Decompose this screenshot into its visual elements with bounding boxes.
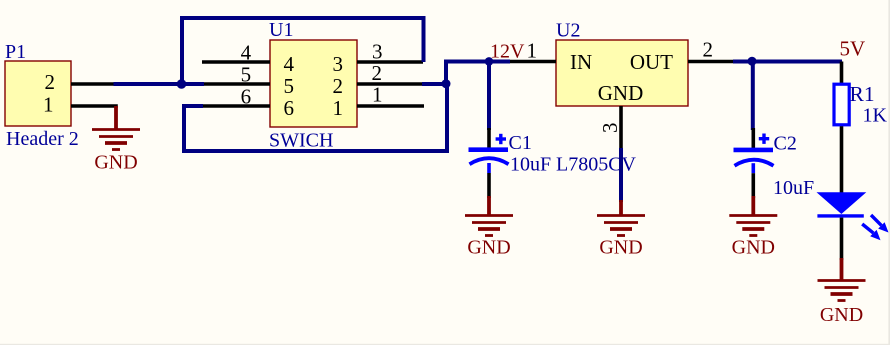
junction C1 tap	[485, 57, 494, 66]
U1 pin 5	[203, 82, 270, 86]
svg-text:12V: 12V	[490, 41, 525, 63]
R1 value 1K	[863, 105, 888, 127]
U1 pin 6 inside name	[284, 96, 295, 120]
capacitor C2	[734, 128, 774, 198]
svg-text:1K: 1K	[863, 105, 888, 127]
U1 pin 2 inside name	[333, 74, 344, 98]
wire LED cathode down	[840, 218, 844, 260]
svg-text:6: 6	[284, 96, 295, 120]
svg-text:4: 4	[284, 52, 295, 76]
switch U1	[270, 40, 357, 127]
svg-text:GND: GND	[467, 237, 510, 259]
svg-text:2: 2	[703, 38, 714, 62]
svg-text:2: 2	[372, 61, 383, 85]
U1 pin 4 inside name	[284, 52, 295, 76]
svg-text:GND: GND	[732, 237, 775, 259]
U1 pin 6	[203, 104, 270, 108]
sheet right edge	[888, 0, 890, 345]
U1 pin 5 number	[241, 63, 252, 87]
LED D1	[817, 192, 889, 240]
wire node C into C2	[751, 62, 755, 131]
U1 designator	[269, 19, 293, 41]
U1 pin 2 number	[372, 61, 383, 85]
svg-text:3: 3	[372, 40, 383, 64]
svg-text:Header 2: Header 2	[6, 128, 79, 150]
U1 pin 6 number	[241, 85, 252, 109]
svg-text:10uF: 10uF	[510, 154, 551, 176]
svg-text:3: 3	[333, 52, 344, 76]
U2 designator	[556, 20, 580, 42]
U1 pin 3	[357, 60, 423, 64]
ground GND at U2	[597, 216, 645, 259]
svg-text:5: 5	[284, 74, 295, 98]
wire node B up to 12V rail	[446, 62, 510, 85]
U2 pin GND name	[598, 81, 644, 105]
P1 pin 2	[71, 82, 115, 86]
junction node A	[177, 79, 187, 89]
wire 12V rail into C1	[487, 62, 491, 131]
svg-text:1: 1	[372, 83, 383, 107]
U2 pin 3 number	[598, 123, 622, 134]
U1 pin 2	[357, 82, 422, 86]
svg-text:GND: GND	[94, 152, 137, 174]
junction node C	[748, 57, 757, 66]
U1 pin 1 inside name	[333, 96, 344, 120]
ground wire C2	[751, 196, 755, 216]
U2 pin 1 number	[527, 39, 538, 63]
wire node A up-over to U1 pin 3	[182, 18, 424, 84]
wire R1 to LED anode	[840, 126, 844, 194]
svg-text:GND: GND	[820, 304, 863, 326]
svg-text:5V: 5V	[840, 37, 866, 61]
net label 5V	[840, 37, 866, 61]
wire node A to U1 pin 5	[182, 82, 204, 86]
U1 pin 3 number	[372, 40, 383, 64]
wire U1 pin 6 down-around to node B	[184, 84, 447, 151]
svg-text:SWICH: SWICH	[269, 130, 333, 152]
svg-text:GND: GND	[599, 237, 642, 259]
wire 5V rail	[752, 60, 842, 64]
svg-text:5: 5	[241, 63, 252, 87]
C2 value 10uF	[773, 177, 814, 199]
svg-text:1: 1	[333, 96, 344, 120]
ground GND at P1	[92, 130, 140, 174]
U2 pin IN name	[570, 50, 592, 74]
svg-text:R1: R1	[850, 82, 875, 106]
sheet bottom edge	[0, 344, 890, 345]
C1 designator	[509, 132, 532, 154]
C1 value 10uF	[510, 154, 551, 176]
svg-text:U2: U2	[556, 20, 580, 42]
U2 value L7805CV	[556, 154, 637, 176]
svg-text:C1: C1	[509, 132, 532, 154]
P1 value Header 2	[6, 128, 79, 150]
P1 pin 1	[71, 104, 118, 108]
junction node B	[442, 79, 451, 88]
U1 pin 3 inside name	[333, 52, 344, 76]
svg-text:10uF: 10uF	[773, 177, 814, 199]
ground wire U2	[619, 200, 623, 216]
svg-text:6: 6	[241, 85, 252, 109]
svg-text:P1: P1	[5, 41, 26, 63]
svg-text:OUT: OUT	[630, 50, 673, 74]
R1 designator	[850, 82, 875, 106]
net label 12V	[490, 41, 525, 63]
svg-text:C2: C2	[774, 133, 797, 155]
ground wire LED	[840, 258, 844, 281]
capacitor C1	[469, 128, 509, 198]
P1 designator	[5, 41, 26, 63]
svg-text:IN: IN	[570, 50, 592, 74]
U2 pin 2 number	[703, 38, 714, 62]
svg-text:1: 1	[527, 39, 538, 63]
svg-text:U1: U1	[269, 19, 293, 41]
svg-text:L7805CV: L7805CV	[556, 154, 637, 176]
U2 pin 2	[688, 60, 733, 64]
regulator U2	[556, 40, 688, 106]
U2 pin 1	[510, 60, 556, 64]
svg-text:2: 2	[45, 70, 56, 94]
U1 pin 4	[202, 60, 270, 64]
wire U2 pin 3 to ground	[619, 148, 623, 202]
wire P1 pin2 to node A	[114, 82, 183, 86]
ground GND at C2	[729, 216, 777, 259]
svg-text:GND: GND	[598, 81, 644, 105]
U1 pin 1	[357, 104, 424, 108]
wire U2 pin 2 to node C	[733, 60, 752, 64]
ground wire C1	[487, 196, 491, 216]
U1 pin 1 number	[372, 83, 383, 107]
ground GND at C1	[465, 216, 513, 259]
svg-text:3: 3	[598, 123, 622, 134]
U2 pin OUT name	[630, 50, 673, 74]
svg-text:2: 2	[333, 74, 344, 98]
wire 5V rail down to R1	[840, 62, 844, 85]
U2 pin 3	[619, 106, 623, 150]
P1 pin 1 name	[43, 93, 54, 117]
connector P1	[5, 61, 71, 126]
ground GND at LED	[818, 281, 866, 327]
svg-text:4: 4	[241, 41, 252, 65]
ground wire P1	[114, 106, 118, 130]
U1 value SWICH	[269, 130, 333, 152]
U1 pin 5 inside name	[284, 74, 295, 98]
svg-text:1: 1	[43, 93, 54, 117]
P1 pin 2 name	[45, 70, 56, 94]
resistor R1	[834, 84, 849, 125]
C2 designator	[774, 133, 797, 155]
U1 pin 4 number	[241, 41, 252, 65]
